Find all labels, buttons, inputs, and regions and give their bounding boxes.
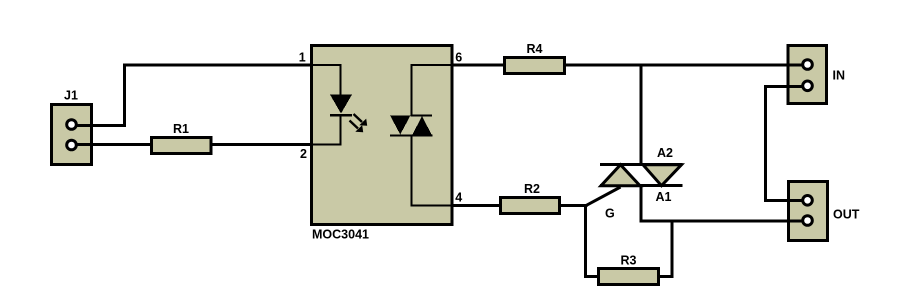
wire gate node vertical down: [584, 204, 587, 278]
svg-text:R2: R2: [524, 182, 540, 196]
wire R3 right stub: [659, 275, 674, 278]
LED D1 triangle (anode): [330, 95, 352, 114]
photo-triac top bar: [411, 115, 433, 117]
resistor R1: [150, 136, 213, 155]
svg-text:G: G: [605, 207, 615, 221]
svg-text:J1: J1: [64, 89, 78, 103]
wire inside MOC: pin1 entry to LED anode: [313, 64, 342, 66]
svg-text:IN: IN: [833, 69, 846, 83]
wire J1 pin2 to R1: [71, 143, 152, 146]
wire gate diagonal: [586, 187, 621, 206]
svg-text:R1: R1: [173, 122, 189, 136]
wire inside MOC: photo-triac to pin4: [411, 137, 413, 207]
triac Q1 left triangle: [601, 165, 640, 186]
photo-triac left triangle: [390, 115, 411, 134]
wire gate node to R3: [584, 275, 600, 278]
triac Q1 bottom bar: [600, 184, 683, 187]
wire MOC pin6 through R4 to IN pin1: [452, 64, 808, 67]
photo-triac bottom bar: [390, 135, 433, 137]
optocoupler U1 MOC3041 body: [310, 44, 454, 226]
svg-text:4: 4: [455, 191, 462, 205]
wire A2 vertical: [640, 64, 643, 166]
svg-text:R3: R3: [621, 254, 637, 268]
wire IN-OUT vertical: [764, 85, 767, 202]
svg-text:A1: A1: [656, 190, 672, 204]
resistor R2: [499, 196, 561, 215]
wire inside MOC: pin6 entry to photo-triac: [411, 64, 451, 66]
connector J1 body: [50, 103, 93, 166]
connector OUT pin 1 circle: [803, 196, 813, 206]
wire A1 vertical down: [640, 185, 643, 222]
wire inside MOC: LED cathode to pin2: [340, 117, 342, 146]
triac Q1 right triangle: [643, 165, 682, 186]
connector IN pin 2 circle: [803, 81, 813, 91]
wire top horizontal to MOC pin1: [123, 64, 312, 67]
LED light arrow 2: [350, 121, 364, 133]
svg-text:2: 2: [300, 147, 307, 161]
wire IN pin2 stub: [764, 85, 808, 88]
connector J1 pin 2 circle: [67, 140, 77, 150]
wire vertical riser: [123, 64, 126, 128]
resistor R3: [597, 267, 660, 286]
wire R1 to MOC pin2: [211, 143, 311, 146]
svg-text:OUT: OUT: [833, 208, 860, 222]
wire R3 right vertical up: [671, 220, 674, 279]
photo-triac right triangle: [412, 116, 432, 136]
wire MOC pin4 through R2 to gate node: [452, 204, 588, 207]
triac Q1 top bar: [600, 163, 683, 166]
connector OUT pin 2 circle: [803, 216, 813, 226]
LED light arrow 1: [354, 114, 368, 126]
wire J1 pin1 to vertical riser: [71, 124, 126, 127]
connector IN pin 1 circle: [803, 60, 813, 70]
svg-text:R4: R4: [527, 42, 543, 56]
connector IN body: [787, 44, 829, 105]
connector OUT body: [787, 180, 829, 242]
svg-text:MOC3041: MOC3041: [312, 228, 369, 242]
svg-text:A2: A2: [657, 146, 673, 160]
resistor R4: [503, 56, 566, 75]
svg-text:1: 1: [299, 51, 306, 65]
wire A1 to OUT pin2: [640, 220, 808, 223]
connector J1 pin 1 circle: [67, 120, 77, 130]
svg-text:6: 6: [455, 51, 462, 65]
LED D1 cathode bar: [330, 114, 352, 117]
wire OUT pin1 stub: [764, 199, 808, 202]
